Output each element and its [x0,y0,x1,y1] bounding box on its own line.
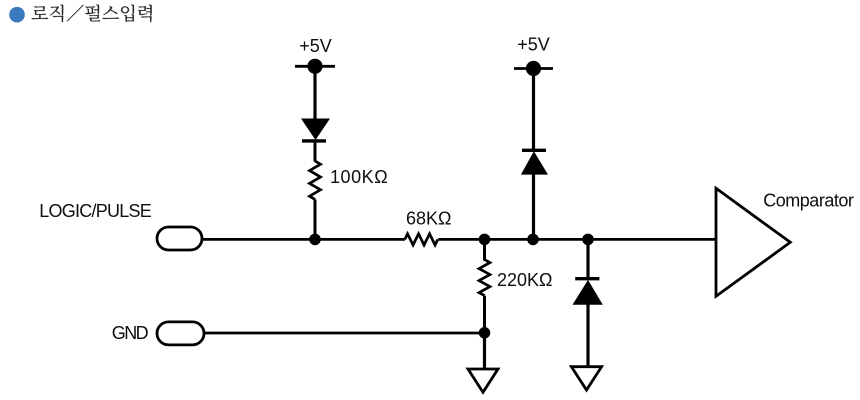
wire +5V left down [313,66,316,119]
wire node B down [483,239,486,260]
bullet [9,7,25,23]
svg-text:+5V: +5V [517,34,550,54]
ground left [468,369,498,392]
power +5V left dot [307,59,322,74]
power +5V right supply [514,67,553,70]
svg-text:GND: GND [112,323,149,343]
resistor R1 100K zigzag [310,161,321,199]
wire main input [202,238,405,241]
svg-text:220KΩ: 220KΩ [497,270,553,290]
diode D1 down [301,119,330,141]
terminal LOGIC/PULSE [157,227,202,250]
node B junction dot [479,234,491,246]
power +5V right dot [526,61,541,76]
wire D1 to R1 [314,141,317,162]
resistor R3 220K zigzag [479,260,490,296]
wire R1 to node A [314,199,317,239]
svg-text:68KΩ: 68KΩ [406,209,451,229]
wire +5V right down [532,69,535,152]
terminal GND [157,322,204,345]
node C junction dot [527,234,539,246]
node A junction dot [309,234,321,246]
svg-text:+5V: +5V [299,36,332,56]
wire main to comparator [438,238,716,241]
svg-text:LOGIC/PULSE: LOGIC/PULSE [39,201,152,221]
wire D3 to ground [586,304,589,367]
wire GND [204,332,485,335]
diode D3 up [573,279,603,305]
title 로직／펄스입력 [32,5,152,23]
wire node D down [586,239,589,279]
svg-text:100KΩ: 100KΩ [330,167,388,187]
op-amp U1 comparator [716,188,790,296]
diode D2 up [521,150,548,174]
wire gnd node down [483,333,486,370]
wire D2 to node C [532,174,535,239]
node D junction dot [582,234,594,246]
wire R3 to gnd node [483,296,486,333]
node E gnd junction dot [479,327,491,339]
resistor R2 68K zigzag [405,234,438,245]
svg-text:Comparator: Comparator [763,190,854,210]
power +5V left supply [295,65,335,68]
ground right [571,367,601,390]
